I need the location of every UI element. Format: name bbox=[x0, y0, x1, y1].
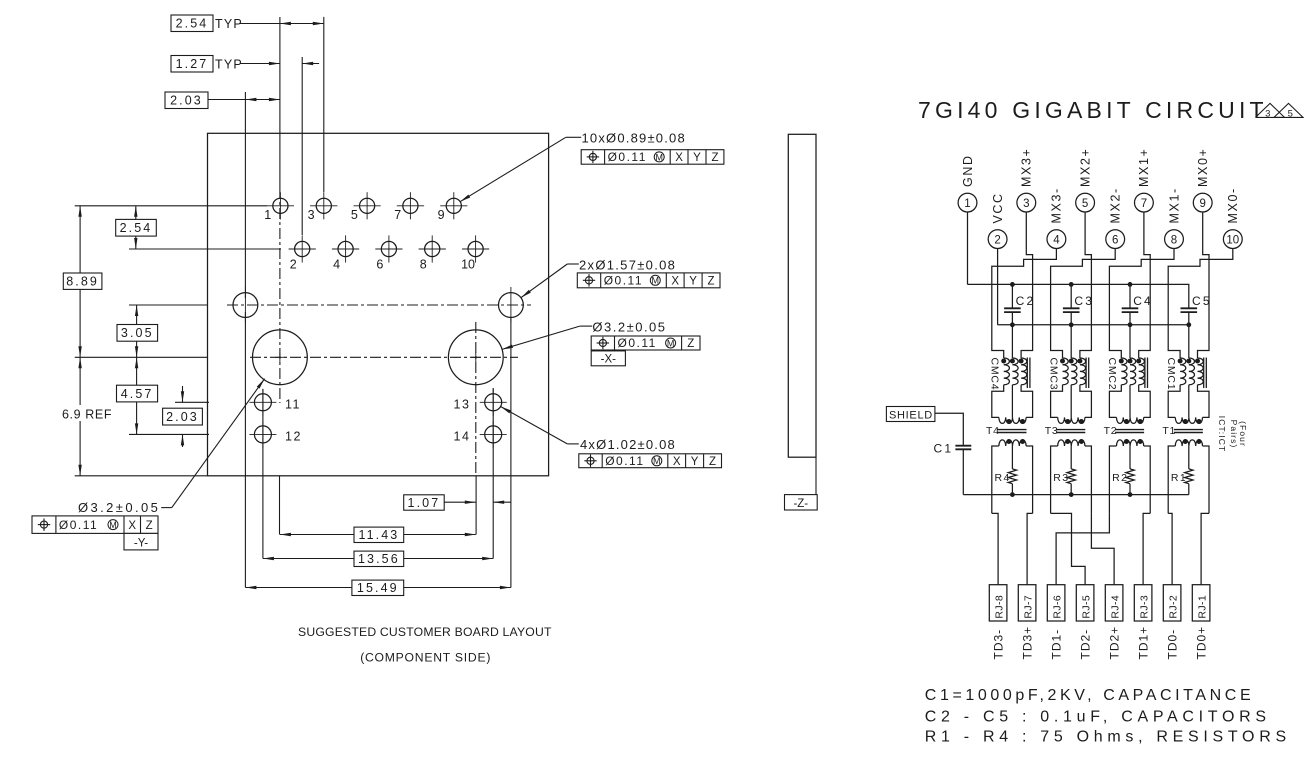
pin 4 circle bbox=[1047, 230, 1066, 249]
big hole left 3.2 bbox=[253, 330, 308, 385]
pin 10 label MX0- bbox=[1226, 187, 1240, 223]
hole pin 2 bbox=[289, 235, 316, 271]
svg-text:C1=1000pF,2KV, CAPACITANCE: C1=1000pF,2KV, CAPACITANCE bbox=[925, 687, 1254, 704]
wire CMC3 to T3 left bbox=[1051, 385, 1063, 418]
svg-text:RJ-3: RJ-3 bbox=[1139, 595, 1151, 619]
svg-text:RJ-8: RJ-8 bbox=[994, 595, 1006, 619]
datum -Y- box bbox=[124, 533, 158, 550]
pin 5 circle bbox=[1076, 193, 1095, 212]
hole pin 1 bbox=[264, 192, 294, 222]
choke CMC3 bbox=[1060, 358, 1089, 389]
wire pin5 to CMC3 bbox=[1080, 212, 1092, 358]
svg-text:13: 13 bbox=[454, 397, 471, 411]
svg-text:R3: R3 bbox=[1053, 472, 1069, 484]
terminal RJ-7 bbox=[1018, 585, 1036, 621]
note four pairs bbox=[1217, 416, 1248, 453]
hole pin 12 bbox=[249, 421, 302, 448]
big hole right 3.2 bbox=[448, 330, 503, 385]
dimension 8.89 bbox=[63, 206, 102, 357]
svg-text:10: 10 bbox=[461, 258, 475, 272]
svg-text:GND: GND bbox=[961, 154, 975, 187]
svg-text:2.54: 2.54 bbox=[176, 17, 209, 31]
caption board layout bbox=[298, 625, 552, 639]
label CMC2 bbox=[1106, 358, 1118, 391]
svg-text:TD1+: TD1+ bbox=[1137, 626, 1151, 660]
choke CMC2 bbox=[1119, 358, 1148, 389]
svg-text:1.07: 1.07 bbox=[408, 496, 441, 510]
label TD0+ bbox=[1195, 626, 1209, 660]
hole pin 6 bbox=[375, 235, 402, 271]
svg-text:M: M bbox=[652, 276, 660, 286]
callout big hole right text bbox=[592, 319, 666, 334]
callout big hole left text bbox=[78, 500, 160, 515]
terminal RJ-4 bbox=[1105, 585, 1123, 621]
svg-text:R4: R4 bbox=[995, 472, 1011, 484]
junction R4 on shield bus bbox=[1010, 492, 1015, 497]
schematic title bbox=[918, 97, 1268, 123]
label CMC1 bbox=[1165, 358, 1177, 391]
svg-text:TD3-: TD3- bbox=[992, 629, 1006, 660]
wire CMC4 to T4 left bbox=[992, 385, 1004, 418]
svg-text:7: 7 bbox=[1141, 198, 1147, 210]
wire CMC4 to T4 right bbox=[1021, 385, 1033, 418]
wire R1 to shield bus bbox=[1188, 484, 1190, 495]
resistor R3 bbox=[1067, 469, 1075, 484]
svg-text:-X-: -X- bbox=[601, 354, 617, 366]
dimension 1.27 TYP bbox=[171, 56, 319, 73]
svg-text:X: X bbox=[128, 520, 136, 532]
terminal RJ-2 bbox=[1163, 585, 1181, 621]
hole pin 11 bbox=[249, 389, 301, 416]
label TD2- bbox=[1079, 629, 1093, 660]
wire CMC1 to T1 right bbox=[1198, 385, 1210, 418]
svg-text:6: 6 bbox=[1112, 234, 1118, 246]
svg-text:4.57: 4.57 bbox=[121, 387, 154, 401]
wire CMC1 to T1 center bbox=[1188, 385, 1190, 418]
PCB board outline bbox=[208, 133, 549, 476]
pin 2 label VCC bbox=[991, 192, 1005, 223]
svg-text:4xØ1.02±0.08: 4xØ1.02±0.08 bbox=[580, 437, 676, 452]
label TD3+ bbox=[1021, 626, 1035, 660]
svg-text:X: X bbox=[675, 152, 683, 164]
transformer T4 bbox=[998, 417, 1027, 446]
label R4 bbox=[995, 472, 1011, 484]
svg-text:Ø0.11: Ø0.11 bbox=[605, 454, 644, 468]
svg-text:3: 3 bbox=[1023, 198, 1029, 210]
svg-text:M: M bbox=[667, 338, 675, 348]
svg-text:TD3+: TD3+ bbox=[1021, 626, 1035, 660]
svg-text:2.03: 2.03 bbox=[170, 94, 203, 108]
extension line pin1 column top bbox=[279, 17, 281, 188]
svg-text:MX2-: MX2- bbox=[1109, 187, 1123, 223]
wire CMC2 to T2 left bbox=[1109, 385, 1121, 418]
label T4 bbox=[986, 425, 1000, 437]
hole pin 3 bbox=[308, 192, 338, 222]
side view outline bbox=[788, 134, 816, 457]
wire pin6 to CMC3 bbox=[1051, 249, 1116, 359]
pin 1 circle bbox=[958, 193, 977, 212]
transformer T3 bbox=[1056, 417, 1085, 446]
pin 5 label MX2+ bbox=[1078, 148, 1092, 187]
callout big hole left leader bbox=[161, 379, 264, 508]
capacitor C4 bbox=[1122, 282, 1153, 327]
extension line row1 left bbox=[75, 205, 267, 207]
svg-text:VCC: VCC bbox=[991, 192, 1005, 223]
caption component side bbox=[360, 651, 491, 665]
pin 6 label MX2- bbox=[1109, 187, 1123, 223]
svg-text:11.43: 11.43 bbox=[358, 528, 399, 542]
svg-text:Z: Z bbox=[146, 520, 153, 532]
svg-text:1: 1 bbox=[964, 198, 970, 210]
extension line row2 left bbox=[129, 248, 281, 250]
choke CMC1 bbox=[1178, 358, 1207, 389]
svg-text:Ø0.11: Ø0.11 bbox=[618, 336, 657, 350]
svg-text:4: 4 bbox=[333, 258, 340, 272]
wire pin4 to CMC4 bbox=[992, 249, 1057, 359]
svg-text:TYP: TYP bbox=[215, 58, 243, 72]
svg-text:2: 2 bbox=[290, 258, 297, 272]
svg-text:Pairs): Pairs) bbox=[1229, 420, 1239, 449]
centerline through big holes bbox=[250, 356, 518, 358]
extension line pins13-14 column bbox=[492, 388, 494, 559]
svg-text:MX3-: MX3- bbox=[1050, 187, 1064, 223]
svg-text:6.9 REF: 6.9 REF bbox=[62, 408, 112, 422]
terminal RJ-8 bbox=[989, 585, 1007, 621]
pin 8 circle bbox=[1165, 230, 1184, 249]
svg-text:TYP: TYP bbox=[215, 17, 243, 31]
hole pin 5 bbox=[351, 192, 381, 222]
dimension 2.54 TYP bbox=[171, 15, 324, 32]
pin 4 label MX3- bbox=[1050, 187, 1064, 223]
pin 1 label GND bbox=[961, 154, 975, 187]
centerline big-hole-right column bbox=[475, 322, 477, 476]
svg-text:2.03: 2.03 bbox=[166, 410, 199, 424]
label CMC3 bbox=[1047, 358, 1059, 391]
wire CMC3 to T3 right bbox=[1080, 385, 1092, 418]
svg-text:5: 5 bbox=[1288, 108, 1293, 119]
callout 10x holes leader bbox=[460, 137, 581, 202]
datum -Z- box bbox=[785, 495, 818, 510]
svg-text:8: 8 bbox=[420, 258, 427, 272]
svg-text:Ø0.11: Ø0.11 bbox=[608, 150, 647, 164]
callout 4x holes leader bbox=[501, 407, 579, 444]
svg-text:7: 7 bbox=[394, 208, 401, 222]
wire CMC2 to T2 center bbox=[1129, 385, 1131, 418]
svg-text:3: 3 bbox=[308, 208, 315, 222]
extension line side-hole row left bbox=[129, 304, 208, 306]
label TD1- bbox=[1050, 629, 1064, 660]
pin 6 circle bbox=[1106, 230, 1125, 249]
callout 2x FCF bbox=[577, 273, 720, 288]
wire T2 secondary right bbox=[1144, 446, 1151, 513]
label R3 bbox=[1053, 472, 1069, 484]
wire CMC4 to T4 center bbox=[1011, 385, 1013, 418]
extension line big-hole-left column bottom bbox=[279, 476, 281, 535]
centerline through side holes bbox=[227, 304, 531, 306]
svg-text:5: 5 bbox=[351, 208, 358, 222]
pin 7 circle bbox=[1135, 193, 1154, 212]
svg-text:9: 9 bbox=[1199, 198, 1205, 210]
wire T3- to RJ-5 bbox=[1051, 513, 1086, 584]
transformer T1 bbox=[1174, 417, 1203, 446]
dimension 2.03 lower bbox=[163, 386, 203, 447]
wire C1 to shield bus bbox=[962, 449, 964, 494]
label TD1+ bbox=[1137, 626, 1151, 660]
note flag triangle 3 bbox=[1256, 103, 1285, 119]
hole pin 10 bbox=[461, 235, 489, 271]
wire T4 center tap bbox=[1011, 446, 1013, 469]
svg-text:MX1-: MX1- bbox=[1167, 187, 1181, 223]
svg-text:Y: Y bbox=[693, 152, 701, 164]
wire CMC3 to T3 center bbox=[1070, 385, 1072, 418]
note C2-C5 value bbox=[925, 708, 1271, 725]
wire T3+ to RJ-4 bbox=[1091, 513, 1114, 584]
svg-text:-Y-: -Y- bbox=[134, 538, 148, 550]
datum -Z- leader bbox=[815, 457, 817, 494]
label TD3- bbox=[992, 629, 1006, 660]
wire pin7 to CMC2 bbox=[1139, 212, 1151, 358]
svg-text:RJ-2: RJ-2 bbox=[1168, 595, 1180, 619]
terminal RJ-5 bbox=[1076, 585, 1094, 621]
dimension 6.9 REF bbox=[60, 357, 112, 476]
svg-text:14: 14 bbox=[454, 429, 471, 443]
dimension 3.05 bbox=[117, 305, 158, 357]
svg-text:Ø0.11: Ø0.11 bbox=[604, 274, 643, 288]
svg-text:C1: C1 bbox=[934, 442, 954, 456]
pin 3 label MX3+ bbox=[1020, 148, 1034, 187]
callout 10x text bbox=[582, 131, 686, 146]
choke CMC4 bbox=[1001, 358, 1030, 389]
svg-text:X: X bbox=[671, 276, 679, 288]
callout 10x FCF bbox=[581, 150, 724, 165]
svg-text:RJ-7: RJ-7 bbox=[1023, 595, 1035, 619]
junction R3 on shield bus bbox=[1069, 492, 1074, 497]
wire T2+ to RJ-3 bbox=[1143, 513, 1150, 584]
svg-text:10: 10 bbox=[1226, 234, 1239, 246]
wire T4 secondary right bbox=[1026, 446, 1033, 513]
wire T2 secondary left bbox=[1109, 446, 1116, 513]
wire R2 to shield bus bbox=[1129, 484, 1131, 495]
svg-text:RJ-6: RJ-6 bbox=[1052, 595, 1064, 619]
transformer T2 bbox=[1115, 417, 1144, 446]
svg-text:3.05: 3.05 bbox=[121, 326, 154, 340]
wire T4- to RJ-8 bbox=[992, 513, 998, 584]
wire T1+ to RJ-1 bbox=[1201, 513, 1209, 584]
wire T2 center tap bbox=[1129, 446, 1131, 469]
svg-text:M: M bbox=[653, 456, 661, 466]
svg-text:TD0+: TD0+ bbox=[1195, 626, 1209, 660]
dimension 2.54 left bbox=[116, 206, 157, 249]
label TD2+ bbox=[1108, 626, 1122, 660]
extension line hole column x=245 bbox=[244, 92, 246, 298]
pin 9 circle bbox=[1193, 193, 1212, 212]
hole pin 8 bbox=[419, 235, 446, 271]
svg-text:9: 9 bbox=[438, 208, 445, 222]
shield bus bbox=[963, 494, 1189, 496]
extension line pin12 row bbox=[129, 433, 209, 435]
wire T3 secondary left bbox=[1051, 446, 1058, 513]
wire T1 center tap bbox=[1188, 446, 1190, 469]
pin 7 label MX1+ bbox=[1137, 148, 1151, 187]
dimension 2.03 top bbox=[165, 92, 280, 109]
svg-text:4: 4 bbox=[1053, 234, 1060, 246]
extension line board bottom left bbox=[75, 475, 208, 477]
wire shield to C1 bbox=[935, 413, 963, 446]
datum -X- box bbox=[591, 351, 625, 366]
label T2 bbox=[1104, 425, 1118, 437]
wire CMC1 to T1 left bbox=[1168, 385, 1180, 418]
svg-text:M: M bbox=[655, 152, 663, 162]
svg-text:1: 1 bbox=[264, 208, 271, 222]
svg-text:TD1-: TD1- bbox=[1050, 629, 1064, 660]
svg-text:RJ-4: RJ-4 bbox=[1110, 595, 1122, 619]
svg-text:RJ-1: RJ-1 bbox=[1197, 595, 1209, 619]
svg-text:T3: T3 bbox=[1045, 425, 1059, 437]
wire vcc to CMC4 center bbox=[1011, 325, 1013, 358]
svg-text:Y: Y bbox=[691, 456, 699, 468]
svg-text:10xØ0.89±0.08: 10xØ0.89±0.08 bbox=[582, 131, 686, 146]
resistor R2 bbox=[1126, 469, 1134, 484]
callout big hole right leader bbox=[502, 326, 592, 349]
svg-text:CMC3: CMC3 bbox=[1047, 358, 1059, 391]
svg-text:13.56: 13.56 bbox=[358, 552, 400, 566]
svg-text:Y: Y bbox=[689, 276, 697, 288]
svg-text:MX2+: MX2+ bbox=[1078, 148, 1092, 187]
callout 2x holes leader bbox=[521, 264, 579, 298]
label R1 bbox=[1171, 472, 1187, 484]
svg-text:MX0+: MX0+ bbox=[1196, 148, 1210, 187]
wire pin3 to CMC4 bbox=[1021, 212, 1033, 358]
svg-text:3: 3 bbox=[1265, 108, 1270, 119]
wire R3 to shield bus bbox=[1070, 484, 1072, 495]
wire vcc to CMC2 center bbox=[1129, 325, 1131, 358]
extension line pin11 row bbox=[175, 401, 209, 403]
wire T4 secondary left bbox=[992, 446, 999, 513]
hole pin 14 bbox=[454, 421, 507, 448]
wire T2- to RJ-6 bbox=[1056, 513, 1109, 584]
hole pin 13 bbox=[454, 389, 507, 416]
ground bus bbox=[968, 284, 1189, 308]
svg-text:MX3+: MX3+ bbox=[1020, 148, 1034, 187]
mounting hole right 1.57 bbox=[499, 287, 524, 323]
callout big hole right FCF bbox=[591, 336, 700, 350]
label CMC4 bbox=[989, 358, 1001, 391]
svg-text:TD2+: TD2+ bbox=[1108, 626, 1122, 660]
label T3 bbox=[1045, 425, 1059, 437]
hole pin 4 bbox=[332, 235, 359, 271]
svg-text:(COMPONENT SIDE): (COMPONENT SIDE) bbox=[360, 651, 491, 665]
capacitor C3 bbox=[1063, 282, 1094, 327]
svg-text:T1: T1 bbox=[1162, 425, 1176, 437]
terminal RJ-1 bbox=[1192, 585, 1210, 621]
dimension 11.43 bbox=[280, 527, 476, 542]
wire CMC2 to T2 right bbox=[1139, 385, 1151, 418]
svg-text:C2 - C5 : 0.1uF, CAPACITORS: C2 - C5 : 0.1uF, CAPACITORS bbox=[925, 708, 1271, 725]
svg-text:2xØ1.57±0.08: 2xØ1.57±0.08 bbox=[579, 257, 676, 272]
wire pin9 to CMC1 bbox=[1198, 212, 1210, 358]
svg-text:2: 2 bbox=[994, 234, 1000, 246]
label TD0- bbox=[1166, 629, 1180, 660]
svg-text:T2: T2 bbox=[1104, 425, 1118, 437]
wire pin8 to CMC2 bbox=[1109, 249, 1174, 359]
svg-text:6: 6 bbox=[376, 258, 383, 272]
svg-text:TD2-: TD2- bbox=[1079, 629, 1093, 660]
wire T4+ to RJ-7 bbox=[1027, 513, 1033, 584]
svg-text:Z: Z bbox=[709, 456, 716, 468]
svg-text:M: M bbox=[109, 520, 117, 530]
svg-text:T4: T4 bbox=[986, 425, 1000, 437]
label R2 bbox=[1112, 472, 1128, 484]
wire pin1 to ground bus bbox=[967, 212, 969, 284]
svg-text:Ø3.2±0.05: Ø3.2±0.05 bbox=[592, 319, 666, 334]
centerline pin1/big-hole column bbox=[279, 188, 281, 403]
extension line big-hole row left bbox=[75, 356, 208, 358]
svg-text:MX1+: MX1+ bbox=[1137, 148, 1151, 187]
note flag triangle 5 bbox=[1274, 103, 1303, 119]
wire T1 secondary left bbox=[1168, 446, 1175, 513]
wire T1 secondary right bbox=[1203, 446, 1210, 513]
svg-text:CMC4: CMC4 bbox=[989, 358, 1001, 391]
svg-text:CMC2: CMC2 bbox=[1106, 358, 1118, 391]
svg-text:7GI40 GIGABIT CIRCUIT: 7GI40 GIGABIT CIRCUIT bbox=[918, 97, 1268, 123]
pin 10 circle bbox=[1223, 230, 1242, 249]
svg-text:12: 12 bbox=[285, 429, 302, 443]
pin 2 circle bbox=[988, 230, 1007, 249]
resistor R4 bbox=[1008, 469, 1016, 484]
callout big hole left FCF bbox=[32, 516, 158, 534]
wire T3 center tap bbox=[1070, 446, 1072, 469]
svg-text:TD0-: TD0- bbox=[1166, 629, 1180, 660]
terminal RJ-3 bbox=[1134, 585, 1152, 621]
extension line pin2 column bbox=[301, 57, 303, 235]
vcc bus bbox=[998, 324, 1189, 326]
callout 2x text bbox=[579, 257, 676, 272]
svg-text:Z: Z bbox=[687, 338, 694, 350]
svg-text:11: 11 bbox=[285, 397, 301, 411]
svg-text:ICT:ICT: ICT:ICT bbox=[1217, 416, 1227, 453]
wire R4 to shield bus bbox=[1011, 484, 1013, 495]
pin 8 label MX1- bbox=[1167, 187, 1181, 223]
capacitor C1 bbox=[934, 442, 972, 456]
svg-text:SUGGESTED CUSTOMER BOARD LAYOU: SUGGESTED CUSTOMER BOARD LAYOUT bbox=[298, 625, 552, 639]
svg-text:Ø0.11: Ø0.11 bbox=[59, 518, 98, 532]
svg-text:8: 8 bbox=[1171, 234, 1177, 246]
svg-text:X: X bbox=[673, 456, 681, 468]
mounting hole left 1.57 bbox=[233, 287, 258, 323]
capacitor C2 bbox=[1004, 282, 1035, 327]
svg-text:RJ-5: RJ-5 bbox=[1081, 595, 1093, 619]
svg-text:Z: Z bbox=[707, 276, 714, 288]
svg-text:SHIELD: SHIELD bbox=[889, 409, 933, 421]
wire T1- to RJ-2 bbox=[1168, 513, 1172, 584]
extension line big-hole-right column bottom bbox=[475, 476, 477, 535]
wire vcc to CMC1 center bbox=[1188, 325, 1190, 358]
dimension 13.56 bbox=[263, 551, 493, 566]
label T1 bbox=[1162, 425, 1176, 437]
note C1 value bbox=[925, 687, 1254, 704]
pin 9 label MX0+ bbox=[1196, 148, 1210, 187]
pin 3 circle bbox=[1017, 193, 1036, 212]
svg-text:R1 - R4 : 75 Ohms, RESISTORS: R1 - R4 : 75 Ohms, RESISTORS bbox=[925, 729, 1291, 746]
note R1-R4 value bbox=[925, 729, 1291, 746]
callout 4x FCF bbox=[579, 454, 722, 468]
extension line pin3 column bbox=[323, 17, 325, 192]
dimension 1.07 bbox=[404, 495, 511, 510]
extension line hole column lower bbox=[244, 312, 246, 588]
wire T3 secondary right bbox=[1085, 446, 1092, 513]
svg-text:Z: Z bbox=[711, 152, 718, 164]
terminal RJ-6 bbox=[1047, 585, 1065, 621]
